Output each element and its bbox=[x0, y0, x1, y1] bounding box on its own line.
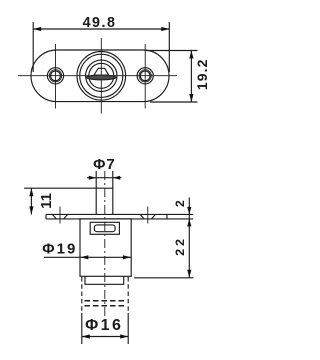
lock body (front view) bbox=[80, 219, 131, 276]
svg-text:49.8: 49.8 bbox=[83, 15, 117, 31]
right screw centerline (front view) bbox=[147, 207, 149, 224]
svg-text:22: 22 bbox=[173, 236, 187, 256]
dimension 19.2 bbox=[145, 51, 198, 103]
dimension 49.8 bbox=[33, 22, 169, 72]
cylinder top cap / 11 extension line bbox=[24, 187, 113, 189]
vertical centerline center boss bbox=[100, 38, 102, 114]
collar below body bbox=[85, 276, 124, 284]
svg-text:Φ16: Φ16 bbox=[85, 317, 123, 334]
label phi16 bbox=[85, 317, 123, 334]
key cylinder sides (front view) bbox=[96, 171, 113, 214]
svg-text:Φ7: Φ7 bbox=[93, 156, 116, 173]
label 11 bbox=[38, 193, 55, 209]
label 19.2 bbox=[194, 58, 210, 90]
label phi7 bbox=[93, 156, 116, 173]
label 2 bbox=[173, 200, 187, 207]
latch window outer bbox=[90, 222, 119, 234]
dimension phi19 bbox=[44, 255, 131, 259]
left countersink bbox=[52, 214, 67, 219]
horizontal centerline (top view) bbox=[18, 75, 177, 77]
dimension 11 bbox=[29, 188, 33, 214]
latch window inner bbox=[94, 225, 115, 232]
hidden cylinder phi16 right side bbox=[127, 277, 129, 313]
right mounting hole bbox=[137, 68, 153, 84]
svg-text:19.2: 19.2 bbox=[194, 58, 210, 90]
22 bottom extension line bbox=[134, 277, 194, 279]
vertical centerline left hole bbox=[55, 44, 57, 109]
left screw centerline (front view) bbox=[59, 207, 61, 224]
plate (front view) bbox=[46, 214, 193, 219]
right countersink bbox=[140, 214, 155, 219]
main vertical centerline (front view) bbox=[104, 171, 106, 318]
central cylinder boss circles bbox=[77, 52, 126, 101]
label 49.8 bbox=[83, 15, 117, 31]
label phi19 bbox=[42, 240, 77, 257]
dimension 2 and 22 line bbox=[187, 198, 191, 278]
vertical centerline right hole bbox=[144, 44, 146, 109]
hidden latch dashes row 1 bbox=[85, 300, 126, 302]
svg-text:Φ19: Φ19 bbox=[42, 240, 77, 257]
plate outline (top view stadium) bbox=[31, 50, 169, 102]
svg-text:11: 11 bbox=[38, 193, 55, 209]
hidden latch dashes row 2 bbox=[85, 305, 126, 307]
left mounting hole bbox=[47, 68, 63, 84]
label 22 bbox=[173, 236, 187, 256]
dimension phi16 bbox=[82, 334, 128, 338]
keyhole slot bbox=[86, 68, 117, 80]
svg-text:2: 2 bbox=[173, 200, 187, 207]
dimension phi7 bbox=[87, 176, 122, 180]
hidden cylinder phi16 left side bbox=[81, 277, 83, 313]
